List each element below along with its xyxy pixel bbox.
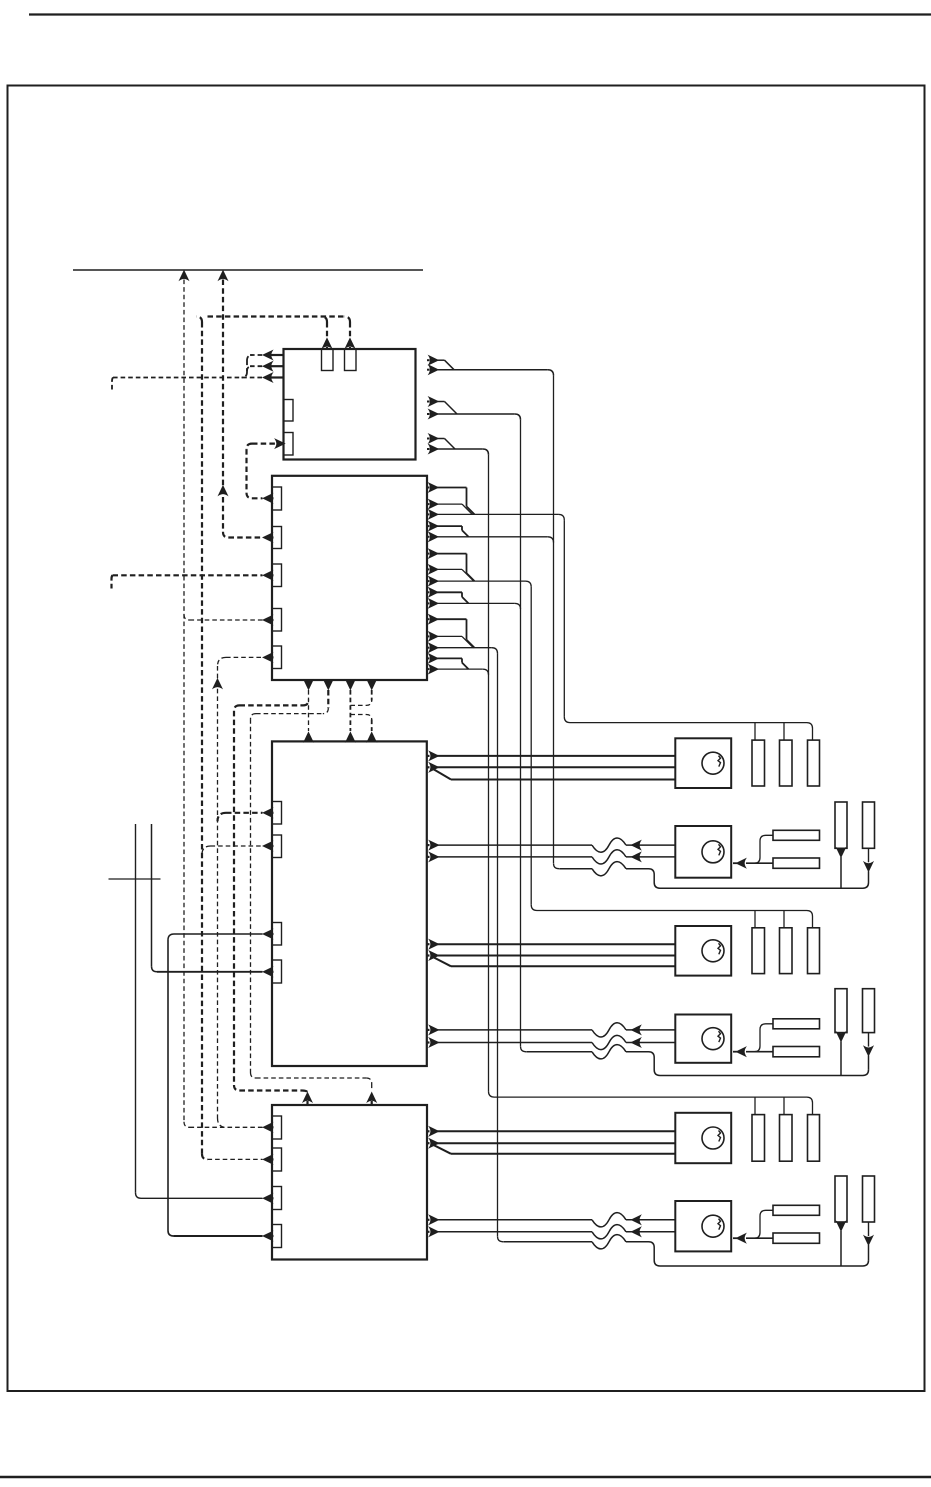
G6 sender unit S2 (tall) [863, 1176, 875, 1222]
bus V2 corner to B2 connector C2 [223, 532, 229, 538]
B1 right output pair 3 (merging wires) [427, 438, 430, 440]
G3 sender/terminal S3 [808, 928, 820, 974]
G5 sender/terminal S3 [808, 1115, 820, 1162]
G6 S2 lead with down arrow to ground run [868, 1222, 870, 1236]
G6 terminal wiring with arrow into gauge [746, 1210, 773, 1238]
dashed bus V3 (x=202) keyswitch feed [197, 317, 203, 323]
gauge G6 (meter head) [675, 1201, 731, 1251]
G4 sender unit S1 (tall) [835, 989, 847, 1033]
bus V1 tee to B2 connector C4 [184, 615, 190, 621]
G4 terminal block T1 (upper) [773, 1019, 820, 1029]
B1 left connector block C1 [284, 400, 294, 422]
G1 sender/terminal S2 [780, 740, 793, 786]
G6 S1 lead with down arrow to ground run [837, 1222, 846, 1231]
B2 group3 lower run merging into bus A3 [437, 668, 483, 670]
bold dashed lead to B2 connector C3 with end hook [113, 574, 263, 576]
B4 right output pair 2 to gauge G6 (flex wires) [427, 1219, 430, 1221]
G2 sender unit S1 (tall) [835, 802, 847, 848]
B2 left connector block C1 [272, 487, 282, 510]
G6 sender unit S1 (tall) [835, 1176, 847, 1222]
direction arrow on bus V4 [213, 679, 222, 688]
G1 sender/terminal S3 [808, 740, 820, 786]
gauge G5 (meter head) [675, 1113, 731, 1163]
control unit box B1 [284, 349, 416, 460]
G1 sender feed bus from bus B1a [564, 717, 812, 740]
B1 top connector pin P1 [322, 349, 334, 371]
harness drop bus A1 (x=553.5) feeding gauge G2 third wire [553, 375, 555, 863]
G2 sender unit S2 (tall) [863, 802, 875, 848]
B3 connector C1 wire teeing into bus V4 [218, 813, 227, 822]
G2 S2 lead with down arrow to ground run [868, 848, 870, 862]
G5 sender feed bus from bus A3 [489, 1091, 813, 1114]
dashed bus V2 (x=223) with up arrow at reference line [219, 271, 228, 280]
horizontal reference line (top bus bar) [73, 269, 423, 271]
G1 bus drop to S1 [754, 723, 756, 741]
G4 S1 lead with down arrow to ground run [837, 1032, 846, 1041]
gauge G2 (meter head) [675, 826, 731, 878]
G3 sender/terminal S1 [752, 928, 765, 974]
bus V3 top run to B1 top pins [208, 315, 345, 317]
B1 top connector pin P2 [345, 349, 357, 371]
G4 sender unit S2 (tall) [863, 989, 875, 1033]
G3 sender/terminal S2 [780, 928, 793, 974]
G1 bus drop to S2 [783, 723, 785, 741]
B4 top pin up arrow (x=371.7) [367, 1093, 376, 1102]
G4 terminal block T2 (lower) [773, 1047, 820, 1057]
dashed bus V1 (x=184) with up arrow at reference line [180, 271, 189, 280]
gauge G1 (meter head) [675, 738, 731, 788]
gauge G2 third wire (from bus A1) with flex [559, 868, 592, 870]
G2 third wire run under gauge to senders [626, 869, 869, 889]
gauge G3 (meter head) [675, 926, 731, 976]
B2 group1 lower run merging into bus A1 [437, 536, 548, 538]
B3 left connector block C2 [272, 835, 282, 858]
G5 bus drop to S2 [783, 1097, 785, 1115]
G3 bus drop to S2 [783, 911, 785, 928]
G2 terminal block T1 (upper) [773, 830, 820, 840]
G2 terminal wiring with arrow into gauge [746, 835, 773, 863]
B2 bottom pin with down arrow (x=328.3) [327, 680, 329, 682]
B3 top pin up arrow (x=350.4) [346, 733, 355, 742]
B3 left connector block C4 [272, 960, 282, 983]
G6 terminal block T2 (lower) [773, 1233, 820, 1243]
B2 group2 lower run merging into bus A2 [437, 602, 515, 604]
harness drop bus A2 (x=520.5) feeding gauge G4 third wire [520, 420, 522, 1046]
B2 right output group 1 wires [427, 487, 430, 489]
B2 bottom pin with down arrow (x=350.4) crossover wires [349, 680, 351, 682]
G5 sender/terminal S1 [752, 1115, 765, 1162]
gauge G6 third wire (from bus B3a) with flex [503, 1241, 592, 1243]
solid wire from B3 connector C3 down to B4 connector C4 [174, 933, 263, 935]
B3 top pin up arrow (x=371.7) [367, 733, 376, 742]
battery lead wire L1 (x=135.5) to B4 connector C3 [135, 824, 137, 1193]
B2 left connector block C5 [272, 646, 282, 669]
dashed stub wire into B1 left connector (top) [250, 354, 263, 356]
B4 left connector block C4 [272, 1225, 282, 1248]
G1 sender/terminal S1 [752, 740, 765, 786]
thin dashed bus V6 (x=250.5) from pin x=328.3 to B4 top pin [323, 708, 329, 714]
B3 right output pair 3 to gauge G3 (3-wire bundle) [427, 943, 430, 945]
G6 terminal block T1 (upper) [773, 1205, 820, 1215]
harness drop bus B3a (x=497.5) feeding gauge G6 third wire [497, 653, 499, 1236]
harness drop bus B2a (x=531.2) feeding gauge G3 sender bus [530, 587, 532, 905]
drop to B1 top pin P1 with up arrow [322, 317, 328, 323]
junction/relay unit box B4 [272, 1105, 427, 1260]
B3 right output pair 4 to gauge G4 (flex wires) [427, 1029, 430, 1031]
B1 right output pair 1 (merging wires) [427, 359, 430, 361]
B3 right output pair 2 to gauge G2 (flex wires) [427, 844, 430, 846]
G2 S1 lead with down arrow to ground run [837, 848, 846, 857]
crossover jog upper [350, 700, 371, 705]
B4 left connector block C3 [272, 1187, 282, 1210]
B3 top pin up arrow (x=308.5) [304, 733, 313, 742]
riser joining B1 left stub wires [247, 355, 253, 361]
B4 left connector block C1 [272, 1116, 282, 1139]
G2 terminal block T2 (lower) [773, 858, 820, 868]
B2 right output group 2 wires [427, 553, 430, 555]
B2 left connector block C4 [272, 609, 282, 632]
bold dashed bus V5 (x=234) from pin x=308.5 to B4 top pin [303, 700, 309, 706]
G4 terminal wiring with arrow into gauge [746, 1024, 773, 1052]
B2 left connector block C3 [272, 564, 282, 587]
junction/relay unit box B3 [272, 741, 427, 1066]
bus V1 bottom corner to B4 connector C1 [184, 1122, 190, 1128]
dashed bus V4 (x=217.5) serving B2-C5, B3-C1 tee, B4-C1 merge [218, 657, 227, 666]
harness drop bus A3 (x=488.5) feeding gauge G5 sender bus [488, 455, 490, 1092]
G6 third wire run under gauge to senders [626, 1242, 869, 1266]
battery lead wire L2 (x=151.5) to B3 connector C4 [151, 824, 153, 966]
crossover jog lower [350, 715, 371, 720]
harness drop bus B1a (x=564.3) feeding gauge G1 sender bus [563, 520, 565, 717]
drop to B1 top pin P2 with up arrow [345, 317, 351, 323]
long dashed lead wire to B1 left with end hook [113, 377, 263, 379]
G4 S2 lead with down arrow to ground run [868, 1033, 870, 1047]
G5 bus drop to S1 [754, 1097, 756, 1115]
B2 left connector block C2 [272, 527, 282, 549]
B1 right output pair 2 (merging wires) [427, 401, 430, 403]
dashed stub wire into B1 left connector (middle) [250, 365, 263, 367]
B4 top pin up arrow (x=307.5) [303, 1093, 312, 1102]
G5 sender/terminal S2 [780, 1115, 793, 1162]
B3 left connector block C3 [272, 923, 282, 946]
gauge G4 (meter head) [675, 1015, 731, 1063]
gauge G4 third wire (from bus A2) with flex [526, 1051, 592, 1053]
B2 bottom pin with down arrow (x=308.5) [307, 680, 309, 682]
B3 right output pair 1 to gauge G1 (3-wire bundle) [427, 755, 430, 757]
G3 sender feed bus from bus B2a [531, 905, 812, 928]
B4 right output pair 1 to gauge G5 (3-wire bundle) [427, 1130, 430, 1132]
bus V4 merge into B4-C1 run [218, 1118, 227, 1127]
B3 connector C2 wire teeing into bus V3 [202, 846, 211, 855]
B1 left connector block C2 [284, 433, 294, 456]
B2 bottom pin with down arrow (x=371.7) crossover wires [371, 680, 373, 682]
bold dashed wire from B1 connector C2 down to B2 connector C1 [276, 439, 285, 448]
bus V3 bottom corner to B4 connector C2 [202, 1154, 208, 1160]
page bottom rule [0, 1476, 931, 1478]
G3 bus drop to S1 [754, 911, 756, 928]
page top rule [29, 13, 931, 15]
main switch unit box B2 [272, 476, 427, 680]
G4 third wire run under gauge to senders [626, 1052, 869, 1076]
B4 left connector block C2 [272, 1148, 282, 1171]
crossing tick over battery leads [109, 878, 161, 880]
B3 left connector block C1 [272, 802, 282, 825]
B2 right output group 3 wires [427, 618, 430, 620]
direction arrow on bus V2 [219, 486, 228, 495]
